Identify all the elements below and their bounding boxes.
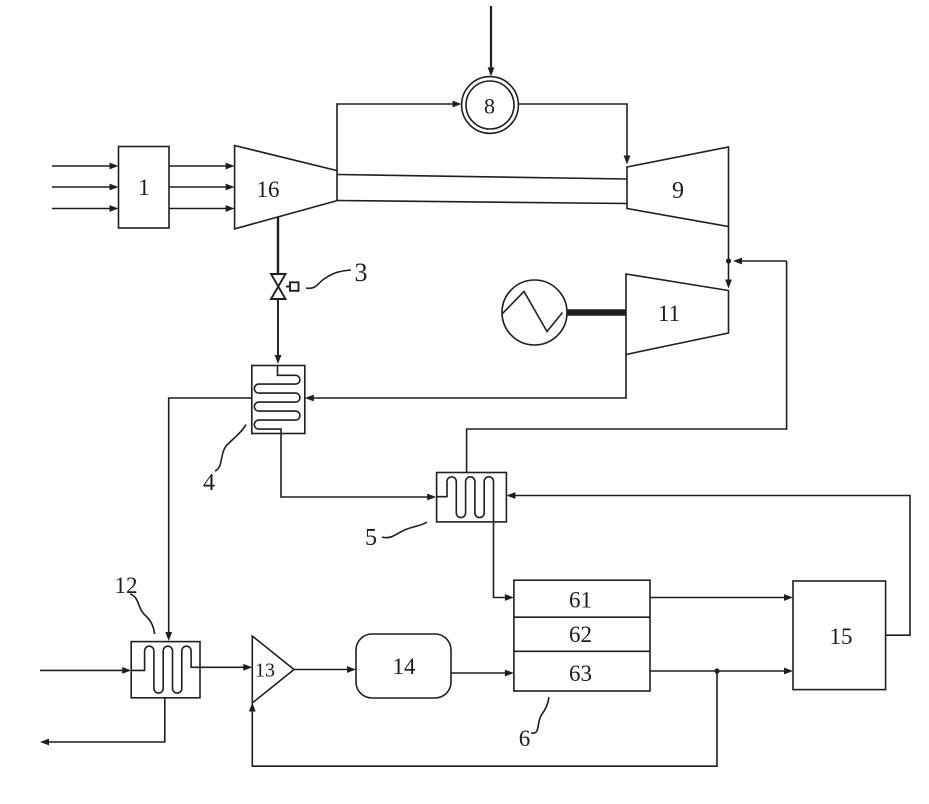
heat exchanger 5 — [437, 473, 507, 522]
leader line for label 3 — [306, 270, 351, 288]
svg-text:3: 3 — [355, 258, 368, 287]
turbine 9 — [627, 147, 729, 227]
svg-text:9: 9 — [672, 178, 684, 204]
wire inlet arrow b to box 1 — [52, 184, 119, 191]
svg-text:61: 61 — [569, 588, 592, 613]
wire blower 13 to box 14 arrow — [294, 666, 356, 673]
wire heat exchanger 12 to blower 13 arrow — [200, 664, 252, 671]
leader line for label 4 — [215, 425, 246, 472]
svg-text:15: 15 — [830, 624, 853, 649]
tank block 6 (rows 61 62 63) — [514, 580, 650, 691]
wire compressor 16 outlet to combustor 8 — [337, 101, 462, 171]
wire duct upper between 16 and 9 — [337, 175, 627, 180]
heat exchanger 4 — [252, 366, 305, 434]
wire heat exchanger 4 coil out to heat exchanger 5 arrow — [281, 434, 436, 501]
box 14 (rounded) — [356, 634, 451, 698]
wire box1 to compressor 16 arrow c — [169, 205, 235, 212]
svg-text:13: 13 — [255, 660, 275, 682]
box 15 — [793, 581, 886, 690]
node B junction dot on row63 line — [714, 668, 719, 673]
generator G circle with sine — [502, 280, 567, 345]
wire turbine 9 exhaust down to node A — [728, 227, 730, 262]
svg-text:63: 63 — [569, 661, 592, 686]
svg-text:1: 1 — [138, 175, 150, 200]
wire heat exchanger 5 shell top to node A — [467, 261, 787, 473]
svg-text:11: 11 — [658, 301, 680, 326]
wire box 14 to tank row 63 arrow — [451, 670, 514, 677]
node A junction dot — [726, 258, 731, 263]
box 1 — [119, 147, 170, 229]
wire box1 to compressor 16 arrow a — [169, 163, 235, 170]
svg-text:6: 6 — [519, 726, 531, 751]
wire heat exchanger 5 coil out down to tank row 61 arrow — [494, 522, 514, 601]
wire heat exchanger 4 shell out left then down to heat exchanger 12 — [165, 398, 252, 641]
wire turbine 11 outlet to heat exchanger 4 — [305, 355, 626, 402]
wire compressor 16 bleed down to valve 3 — [277, 217, 279, 275]
valve 3 — [271, 274, 299, 299]
blower 13 (triangle) — [252, 636, 294, 703]
wire combustor 8 to turbine 9 — [519, 104, 631, 165]
svg-text:12: 12 — [115, 573, 138, 598]
shaft between generator and turbine 11 — [567, 309, 627, 316]
wire inlet arrow a to box 1 — [52, 163, 119, 170]
heat exchanger 12 — [131, 642, 200, 698]
wire water inlet arrow to heat exchanger 12 — [40, 667, 131, 674]
wire recycle return arrow into node A — [733, 258, 787, 265]
wire duct lower between 16 and 9 — [337, 201, 627, 204]
svg-text:5: 5 — [365, 525, 377, 551]
turbine 11 — [626, 274, 729, 355]
wire valve 3 down arrow to heat exchanger 4 — [275, 299, 282, 364]
svg-text:4: 4 — [203, 470, 215, 496]
compressor 16 — [235, 146, 337, 229]
leader line for label 12 — [130, 594, 155, 634]
wire row 63 to box 15 arrow — [650, 668, 793, 675]
wire inlet arrow c to box 1 — [52, 205, 119, 212]
svg-text:16: 16 — [257, 177, 280, 202]
wire heat exchanger 12 drain down and out left arrow — [40, 698, 165, 746]
combustor 8 (double circle) — [462, 77, 519, 134]
svg-text:8: 8 — [484, 94, 495, 119]
svg-text:14: 14 — [393, 654, 417, 679]
wire node B down and bottom return to blower 13 arrow — [249, 671, 717, 766]
wire node A down arrow into turbine 11 — [725, 261, 732, 289]
leader line for label 5 — [382, 522, 427, 538]
svg-text:62: 62 — [569, 622, 592, 647]
wire row 61 to box 15 arrow — [650, 594, 793, 601]
wire fuel inlet arrow into combustor 8 — [488, 6, 495, 76]
wire box 15 out right up and back to heat exchanger 5 arrow — [506, 492, 910, 635]
leader line for label 6 — [531, 697, 549, 733]
wire box1 to compressor 16 arrow b — [169, 184, 235, 191]
